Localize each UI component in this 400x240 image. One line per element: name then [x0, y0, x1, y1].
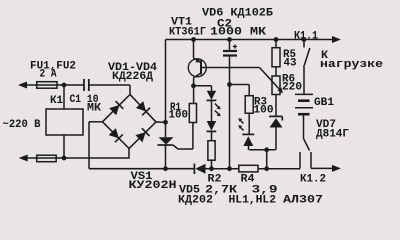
- svg-text:КУ202Н: КУ202Н: [129, 180, 177, 192]
- node C2 bottom on rail: [227, 166, 232, 171]
- resistor R4: [239, 165, 258, 172]
- svg-text:~220 В: ~220 В: [3, 119, 41, 131]
- svg-text:VD6 КД102Б: VD6 КД102Б: [202, 8, 273, 20]
- diode VD5: [193, 164, 195, 175]
- wire K1.2 to load arrow: [311, 167, 334, 169]
- svg-text:КТ361Г: КТ361Г: [169, 27, 206, 39]
- wire C2 node to R3: [230, 84, 250, 86]
- contact K1.2: [304, 139, 310, 151]
- capacitor C1: [83, 79, 85, 91]
- wire junction down to rail: [266, 150, 268, 169]
- capacitor C2 (electrolytic): [229, 40, 231, 51]
- wiper arrow R6: [260, 68, 282, 92]
- thyristor VS1: [165, 122, 167, 137]
- wire R1 bottom to gate elbow: [192, 123, 194, 150]
- resistor R2: [208, 141, 215, 161]
- relay coil K1: [46, 109, 83, 135]
- diode VD4 (bridge lower-right): [125, 118, 160, 152]
- node plus-output junction: [163, 120, 168, 125]
- svg-text:МК: МК: [87, 103, 101, 115]
- svg-text:GB1: GB1: [314, 97, 334, 109]
- node C2 top on rail: [227, 37, 232, 42]
- LED HL2: [207, 121, 217, 131]
- wire collector to LED column: [194, 85, 212, 87]
- wire K1 coil bottom lead: [63, 135, 65, 158]
- wire VT1 emitter lead: [193, 40, 195, 59]
- node junction after FU1: [62, 83, 67, 88]
- wire top supply rail: [166, 39, 335, 41]
- svg-text:АЛ307: АЛ307: [283, 195, 323, 207]
- wire plus node up to top rail: [165, 40, 167, 123]
- node C2/R3 junction: [227, 82, 232, 87]
- wire VT1 base line: [202, 67, 260, 69]
- LED HL2 (on R3 branch, pointing up): [248, 113, 250, 134]
- resistor R1: [189, 104, 196, 123]
- resistor R5: [272, 48, 280, 67]
- wire VT1 collector lead: [193, 78, 195, 104]
- wire rail VD5 to R4: [212, 168, 239, 170]
- label + (C2 polarity): [233, 46, 237, 48]
- svg-text:100: 100: [254, 105, 274, 117]
- LED emission arrows HL1/HL2: [215, 104, 220, 109]
- node arrow left bottom (mains terminal): [19, 155, 28, 162]
- contact K1.1: [303, 40, 305, 48]
- resistor R3: [245, 96, 253, 114]
- svg-text:220: 220: [282, 82, 302, 94]
- wire LED/zener bottom link: [249, 149, 275, 151]
- node link junction: [264, 147, 269, 152]
- diode VD2 (bridge upper-right): [126, 91, 160, 126]
- node collector junction: [191, 83, 196, 88]
- wire K1 coil top lead: [63, 85, 65, 109]
- wire bridge DC plus: right corner to node: [156, 121, 166, 123]
- svg-text:Д814Г: Д814Г: [316, 129, 349, 141]
- diode VD1 (bridge upper-left): [99, 91, 134, 126]
- wire GB1 bottom: [303, 114, 305, 138]
- svg-text:3,9: 3,9: [252, 185, 278, 197]
- svg-text:1000 МК: 1000 МК: [210, 27, 266, 39]
- wire R5 top lead: [275, 40, 277, 48]
- wire R2 to rail: [211, 160, 213, 169]
- svg-text:КД226Д: КД226Д: [112, 71, 153, 83]
- wire R5-R6: [275, 67, 277, 76]
- wire bottom rail (minus bus): [89, 168, 195, 170]
- resistor R6 (trimmer): [272, 76, 280, 95]
- LED emission arrows (left column): [240, 120, 244, 124]
- LED HL1: [211, 86, 213, 91]
- battery GB1: [295, 93, 313, 95]
- node arrow K1.1 to load: [332, 36, 341, 43]
- svg-text:К1.2: К1.2: [300, 174, 326, 186]
- node K1.1 on rail: [302, 37, 307, 42]
- wire top-left mains line: [24, 84, 130, 86]
- wire bottom-left mains line: [25, 157, 129, 159]
- fuse FU2: [37, 155, 57, 162]
- node R2 on rail: [209, 166, 214, 171]
- svg-text:43: 43: [284, 58, 297, 70]
- node emitter junction on rail: [191, 37, 196, 42]
- node arrow left top (mains terminal): [18, 82, 27, 89]
- node VS1 cathode on rail: [163, 166, 168, 171]
- node R5 top on rail: [274, 37, 279, 42]
- zener diode VD7: [269, 115, 282, 117]
- diode VD3 (bridge lower-left): [98, 118, 133, 153]
- node on rail: [264, 166, 269, 171]
- wire top line into bridge: [129, 85, 131, 95]
- fuse FU1: [37, 82, 57, 89]
- svg-text:К1: К1: [50, 95, 63, 107]
- svg-text:К1.1: К1.1: [294, 31, 318, 43]
- node junction bottom fuse line: [62, 156, 67, 161]
- node arrow bottom right (to load): [332, 165, 341, 172]
- wire bridge DC minus: left corner to bottom rail: [89, 121, 103, 123]
- svg-text:2 А: 2 А: [40, 69, 57, 81]
- wire bridge bottom corner to mains line: [128, 149, 130, 159]
- svg-text:нагрузке: нагрузке: [320, 59, 383, 71]
- wire R6 bottom to zener: [275, 95, 277, 117]
- svg-text:100: 100: [169, 110, 189, 122]
- wire rail R4 to end: [258, 168, 300, 170]
- transistor VT1: [188, 59, 206, 77]
- svg-text:КД202: КД202: [178, 195, 213, 207]
